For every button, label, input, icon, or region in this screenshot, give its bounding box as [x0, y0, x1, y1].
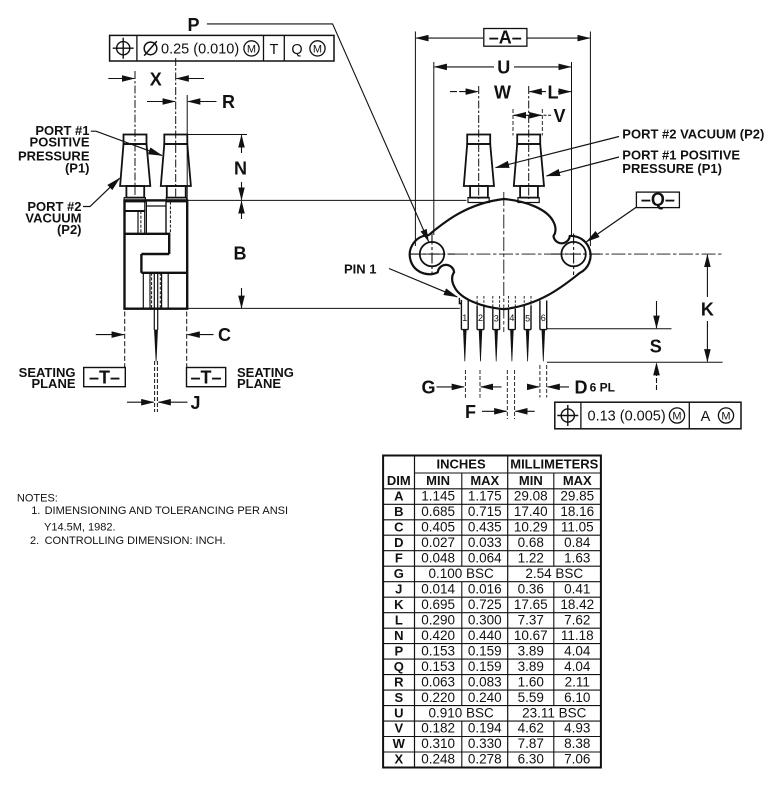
svg-text:2.11: 2.11 [565, 674, 590, 689]
port P1 flare [166, 198, 186, 202]
body right edge extension line [186, 95, 188, 199]
right view port 2 label [496, 127, 765, 168]
port P1 neck [167, 186, 186, 198]
right view port 1 label [547, 148, 741, 177]
svg-text:U: U [394, 705, 403, 720]
svg-text:4.04: 4.04 [564, 659, 591, 674]
svg-text:0.25 (0.010): 0.25 (0.010) [161, 41, 239, 57]
svg-text:V: V [394, 721, 403, 736]
svg-text:(P2): (P2) [57, 222, 82, 237]
svg-text:0.033: 0.033 [468, 535, 502, 550]
datum Q label [587, 189, 680, 241]
svg-text:PRESSURE (P1): PRESSURE (P1) [622, 161, 722, 176]
svg-text:0.41: 0.41 [564, 581, 590, 596]
right hole crosshair [551, 234, 602, 276]
svg-text:P: P [187, 15, 199, 35]
dimension P label and leader [187, 15, 428, 242]
svg-text:7.62: 7.62 [564, 612, 590, 627]
svg-text:NOTES:: NOTES: [17, 493, 58, 505]
svg-text:0.153: 0.153 [421, 659, 455, 674]
svg-text:D: D [394, 535, 403, 550]
svg-text:0.695: 0.695 [421, 597, 455, 612]
port P1 centerline right view [528, 86, 530, 199]
body outline (lens with two lobes) [410, 199, 591, 309]
svg-text:0.36: 0.36 [518, 581, 544, 596]
pin extension dashed lines for J [155, 361, 158, 412]
svg-text:0.240: 0.240 [468, 690, 502, 705]
svg-text:C: C [394, 520, 404, 535]
right top view of package [187, 86, 722, 361]
svg-text:POSITIVE: POSITIVE [30, 135, 90, 150]
svg-text:0.159: 0.159 [468, 659, 502, 674]
svg-text:0.064: 0.064 [468, 550, 502, 565]
svg-text:4.04: 4.04 [564, 643, 591, 658]
svg-text:A: A [394, 489, 404, 504]
seating plane datum T right [187, 365, 294, 391]
port P1 neck [520, 186, 538, 198]
svg-text:0.405: 0.405 [421, 520, 455, 535]
svg-text:M: M [672, 411, 681, 423]
bottom feature control frame [555, 402, 741, 429]
port P1 centerline [175, 58, 177, 197]
svg-text:P: P [394, 643, 403, 658]
svg-text:PORT #2 VACUUM (P2): PORT #2 VACUUM (P2) [622, 127, 764, 142]
svg-text:X: X [394, 752, 403, 767]
svg-text:29.08: 29.08 [514, 489, 548, 504]
internal step lines [144, 202, 146, 211]
dimension N [188, 135, 247, 200]
port P2 taper [464, 144, 494, 186]
port P1 (right) cap [517, 135, 540, 145]
svg-text:Q: Q [291, 42, 302, 58]
svg-text:S: S [650, 337, 662, 357]
dimension V [513, 106, 566, 136]
left side view of package [120, 58, 191, 412]
PIN 1 label [344, 262, 457, 297]
svg-text:F: F [465, 402, 476, 422]
top feature control frame [110, 35, 334, 61]
pin 3 [493, 296, 500, 361]
long line at seating level to pin 1 [187, 307, 460, 309]
svg-text:L: L [548, 82, 559, 102]
svg-text:2.: 2. [30, 535, 39, 547]
svg-text:0.910 BSC: 0.910 BSC [428, 705, 494, 720]
svg-text:0.310: 0.310 [421, 736, 455, 751]
svg-text:PIN 1: PIN 1 [344, 262, 377, 277]
port P2 neck [470, 186, 488, 198]
port P1 taper [514, 144, 544, 186]
pin 4 [509, 296, 516, 361]
svg-text:T: T [269, 42, 278, 58]
port P1 (right) cap [164, 135, 187, 145]
svg-text:M: M [721, 411, 730, 423]
diameter symbol [144, 42, 157, 55]
svg-text:4.62: 4.62 [518, 721, 544, 736]
svg-text:PLANE: PLANE [31, 376, 75, 391]
svg-text:3.89: 3.89 [518, 643, 544, 658]
pin 1 [459, 298, 468, 361]
svg-text:R: R [222, 92, 235, 112]
port P2 (left) cap [124, 135, 147, 145]
left view body outline [125, 200, 188, 308]
svg-text:M: M [247, 44, 256, 56]
svg-text:V: V [553, 106, 565, 126]
svg-text:0.100 BSC: 0.100 BSC [428, 566, 494, 581]
svg-text:MIN: MIN [426, 473, 450, 488]
svg-text:5: 5 [525, 314, 530, 324]
svg-text:0.048: 0.048 [421, 550, 455, 565]
svg-text:A: A [701, 409, 711, 425]
svg-text:2.54 BSC: 2.54 BSC [525, 566, 583, 581]
svg-text:4: 4 [509, 313, 514, 323]
svg-text:PLANE: PLANE [237, 376, 281, 391]
notes block [17, 493, 288, 547]
svg-text:DIMENSIONING AND TOLERANCING P: DIMENSIONING AND TOLERANCING PER ANSI [45, 505, 288, 517]
svg-text:J: J [395, 581, 402, 596]
dimension W [450, 82, 511, 102]
svg-text:11.05: 11.05 [561, 520, 594, 535]
svg-text:1.63: 1.63 [564, 550, 590, 565]
svg-text:10.67: 10.67 [514, 628, 548, 643]
port P2 flare [468, 198, 489, 203]
svg-text:MAX: MAX [563, 473, 592, 488]
port P1 taper [161, 144, 191, 186]
svg-text:B: B [394, 504, 403, 519]
svg-text:0.435: 0.435 [468, 520, 502, 535]
svg-text:–A–: –A– [489, 28, 522, 48]
pin 6 [540, 301, 547, 362]
svg-text:F: F [395, 550, 403, 565]
dimension S reference lines [547, 328, 672, 330]
C extension dashed lines [125, 312, 187, 368]
svg-text:0.440: 0.440 [468, 628, 502, 643]
svg-text:J: J [190, 393, 200, 413]
svg-text:0.248: 0.248 [421, 752, 455, 767]
svg-text:X: X [150, 69, 162, 89]
svg-text:N: N [394, 628, 403, 643]
svg-text:B: B [234, 244, 247, 264]
svg-text:W: W [494, 82, 511, 102]
seating plane datum T left [19, 365, 126, 391]
svg-text:MAX: MAX [470, 473, 499, 488]
svg-text:7.87: 7.87 [518, 736, 544, 751]
svg-text:7.06: 7.06 [564, 752, 590, 767]
package vertical centerline [503, 192, 505, 332]
svg-text:1.: 1. [31, 505, 40, 517]
svg-text:S: S [394, 690, 403, 705]
pin needle taper [155, 330, 158, 361]
svg-text:6 PL: 6 PL [590, 381, 615, 395]
dimension K [701, 255, 714, 362]
long line connecting views at port base level [187, 199, 466, 201]
svg-text:0.278: 0.278 [468, 752, 502, 767]
svg-text:6.30: 6.30 [518, 752, 544, 767]
svg-text:17.65: 17.65 [514, 597, 548, 612]
dimension U with extension lines [434, 58, 572, 237]
pin inside body [154, 273, 157, 309]
svg-text:1.145: 1.145 [421, 489, 455, 504]
svg-text:6.10: 6.10 [564, 690, 590, 705]
dimension D [528, 365, 615, 398]
svg-text:0.84: 0.84 [564, 535, 591, 550]
svg-text:0.063: 0.063 [421, 674, 455, 689]
left port 2 label [25, 178, 119, 237]
dimension X [108, 69, 204, 89]
svg-text:Q: Q [394, 659, 404, 674]
dimension B [234, 201, 247, 308]
dimension S [650, 301, 662, 390]
svg-text:0.016: 0.016 [468, 581, 502, 596]
svg-text:INCHES: INCHES [437, 457, 486, 472]
svg-text:1.175: 1.175 [468, 489, 502, 504]
svg-text:18.16: 18.16 [560, 504, 594, 519]
svg-text:K: K [394, 597, 404, 612]
svg-text:MIN: MIN [519, 473, 543, 488]
svg-text:–T–: –T– [190, 368, 221, 388]
port P2 taper [120, 144, 150, 186]
svg-text:0.715: 0.715 [468, 504, 502, 519]
port P1 flare [518, 198, 539, 203]
svg-text:3.89: 3.89 [518, 659, 544, 674]
svg-text:1: 1 [462, 313, 467, 323]
svg-text:2: 2 [478, 313, 483, 323]
dimension R [147, 92, 235, 112]
svg-text:(P1): (P1) [65, 161, 90, 176]
svg-text:–T–: –T– [89, 368, 120, 388]
svg-text:Y14.5M, 1982.: Y14.5M, 1982. [44, 522, 116, 534]
dimension C [96, 325, 231, 345]
svg-text:0.68: 0.68 [518, 535, 544, 550]
svg-text:6: 6 [541, 313, 546, 323]
svg-text:R: R [394, 674, 404, 689]
svg-text:U: U [497, 58, 510, 78]
svg-text:G: G [394, 566, 404, 581]
svg-text:0.014: 0.014 [421, 581, 455, 596]
pin below body (side profile) [154, 309, 157, 330]
port P2 (left) cap [467, 135, 490, 145]
svg-text:0.420: 0.420 [421, 628, 455, 643]
svg-text:0.330: 0.330 [468, 736, 502, 751]
svg-text:0.083: 0.083 [468, 674, 502, 689]
svg-text:0.290: 0.290 [421, 612, 455, 627]
left mounting hole [420, 242, 444, 266]
pin 5 [524, 296, 531, 361]
svg-text:–Q–: –Q– [641, 189, 675, 209]
dimension L [529, 82, 570, 102]
left port 1 label [18, 123, 162, 176]
svg-text:18.42: 18.42 [560, 597, 594, 612]
position symbol [117, 42, 130, 55]
svg-text:0.685: 0.685 [421, 504, 455, 519]
svg-text:C: C [218, 325, 231, 345]
svg-text:0.300: 0.300 [468, 612, 502, 627]
position symbol [561, 409, 574, 422]
svg-text:0.027: 0.027 [421, 535, 455, 550]
svg-text:N: N [234, 159, 247, 179]
dimension G [421, 370, 501, 398]
svg-text:3: 3 [494, 314, 499, 324]
dimension F [465, 370, 535, 422]
port P2 flare [124, 198, 145, 202]
dimension A with extension lines [415, 28, 590, 247]
svg-text:CONTROLLING DIMENSION: INCH.: CONTROLLING DIMENSION: INCH. [45, 535, 226, 547]
svg-text:7.37: 7.37 [518, 612, 544, 627]
svg-text:0.159: 0.159 [468, 643, 502, 658]
package horizontal centerline [409, 253, 723, 255]
svg-text:D: D [575, 377, 588, 397]
svg-text:0.153: 0.153 [421, 643, 455, 658]
svg-text:17.40: 17.40 [514, 504, 548, 519]
svg-text:1.60: 1.60 [518, 674, 544, 689]
left hole crosshair [410, 234, 456, 276]
svg-text:MILLIMETERS: MILLIMETERS [510, 457, 598, 472]
svg-text:23.11 BSC: 23.11 BSC [522, 705, 587, 720]
svg-text:0.194: 0.194 [468, 721, 502, 736]
svg-text:0.182: 0.182 [421, 721, 455, 736]
port P2 neck [126, 186, 144, 198]
right mounting hole [561, 242, 585, 266]
circled M modifier [244, 41, 259, 56]
svg-text:29.85: 29.85 [560, 489, 594, 504]
dimension table [383, 456, 601, 768]
pin numbers [462, 313, 546, 324]
pin 2 [477, 296, 484, 361]
svg-text:10.29: 10.29 [514, 520, 548, 535]
svg-text:L: L [395, 612, 403, 627]
port P2 centerline [134, 71, 136, 197]
svg-text:G: G [421, 378, 435, 398]
svg-text:0.725: 0.725 [468, 597, 502, 612]
svg-text:M: M [313, 44, 322, 56]
svg-text:5.59: 5.59 [518, 690, 544, 705]
svg-text:W: W [393, 736, 406, 751]
svg-text:8.38: 8.38 [564, 736, 590, 751]
svg-text:0.220: 0.220 [421, 690, 455, 705]
port P2 centerline right view [478, 86, 480, 199]
dimension J [127, 393, 201, 413]
svg-text:11.18: 11.18 [561, 628, 594, 643]
svg-text:0.13 (0.005): 0.13 (0.005) [588, 409, 666, 425]
svg-text:1.22: 1.22 [518, 550, 544, 565]
svg-text:4.93: 4.93 [564, 721, 590, 736]
svg-text:K: K [701, 300, 714, 320]
svg-text:DIM: DIM [387, 473, 411, 488]
